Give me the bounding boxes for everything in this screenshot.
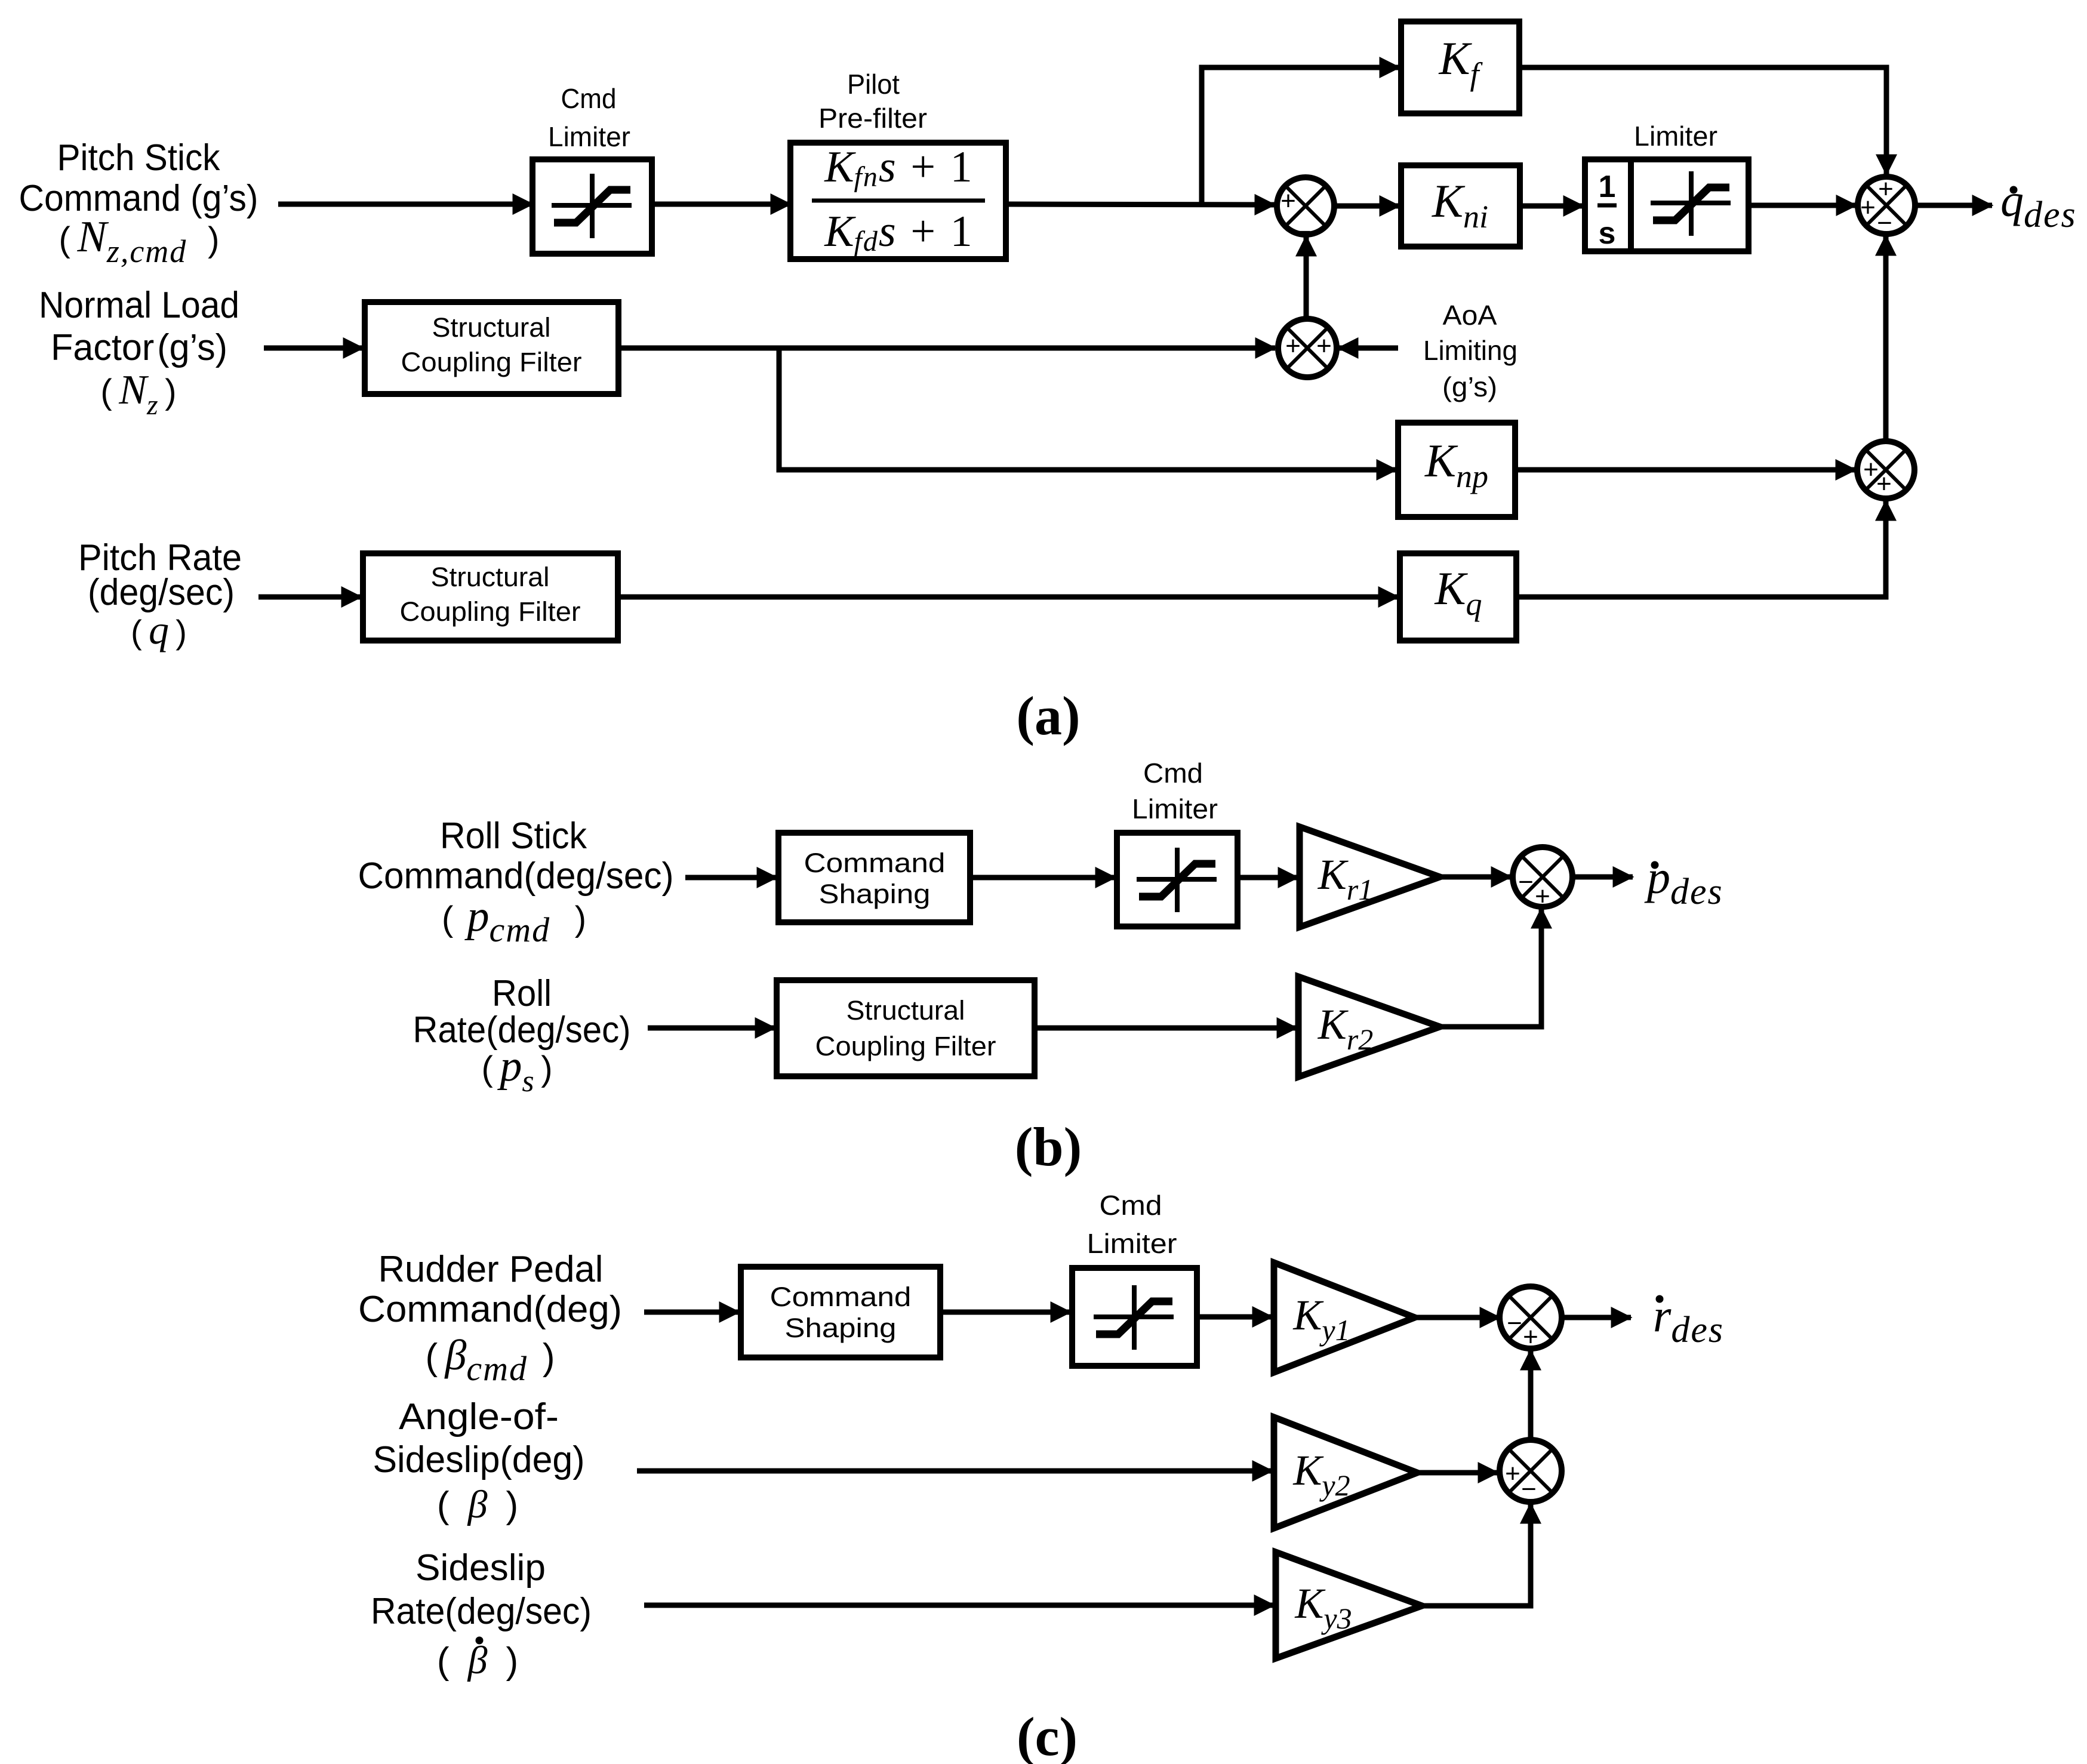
wire Ky1 to J4a xyxy=(1415,1315,1500,1320)
output arrow p_des xyxy=(1572,875,1633,880)
svg-text:Sideslip: Sideslip xyxy=(415,1547,546,1588)
wire J6 up to J5 xyxy=(1883,236,1889,441)
svg-text:+: + xyxy=(1860,193,1876,222)
svg-text:Shaping: Shaping xyxy=(819,879,931,909)
output arrow r_des xyxy=(1562,1315,1631,1320)
block Structural Coupling Filter (b) xyxy=(777,980,1035,1076)
summing junction J4b xyxy=(1500,1440,1562,1502)
wire input to Cmd Limiter xyxy=(278,202,532,207)
svg-text:+: + xyxy=(1505,1459,1520,1488)
svg-text:−: − xyxy=(1507,1309,1522,1338)
wire Kf output to J5 xyxy=(1519,67,1886,174)
svg-text:Limiting: Limiting xyxy=(1423,335,1517,366)
svg-text:Command(deg): Command(deg) xyxy=(358,1289,622,1330)
wire Cmd Limiter to Kr1 xyxy=(1238,875,1298,881)
summing junction J3 (p_des) xyxy=(1513,847,1572,907)
svg-text:Command: Command xyxy=(804,848,946,878)
svg-text:(a): (a) xyxy=(1016,685,1080,746)
gain triangle Ky3 xyxy=(1276,1552,1422,1658)
svg-text:Command (g’s): Command (g’s) xyxy=(19,178,258,219)
block Structural Coupling Filter (q) xyxy=(363,553,618,641)
wire Kr1 to J3 xyxy=(1440,875,1511,880)
wire Cmd Limiter to Ky1 xyxy=(1197,1314,1272,1320)
svg-text:(g’s): (g’s) xyxy=(1442,371,1497,402)
svg-text:( β ): ( β ) xyxy=(437,1483,518,1526)
svg-text:Limiter: Limiter xyxy=(1132,793,1218,824)
svg-text:Structural: Structural xyxy=(847,995,965,1026)
svg-text:+: + xyxy=(1876,469,1892,498)
output arrow q_des xyxy=(1915,203,1992,208)
svg-text:(b): (b) xyxy=(1015,1116,1082,1177)
wire input to Structural Coupling Filter (b) xyxy=(648,1026,775,1031)
block gain Kf xyxy=(1401,21,1519,113)
svg-text:Pre-filter: Pre-filter xyxy=(818,103,927,134)
svg-text:Angle-of-: Angle-of- xyxy=(399,1396,559,1437)
svg-text:+: + xyxy=(1316,331,1332,361)
svg-text:1: 1 xyxy=(1599,170,1616,204)
wire input to Structural Coupling Filter 2 xyxy=(258,595,361,600)
svg-text:Command(deg/sec): Command(deg/sec) xyxy=(358,855,674,897)
svg-text:Pilot: Pilot xyxy=(847,69,900,100)
svg-text:Coupling Filter: Coupling Filter xyxy=(401,347,582,377)
svg-text:Kfns + 1: Kfns + 1 xyxy=(824,143,972,193)
block gain Knp xyxy=(1398,423,1515,517)
wire beta input to Ky2 xyxy=(637,1469,1272,1474)
svg-text:Factor (g’s): Factor (g’s) xyxy=(51,327,227,368)
svg-text:Limiter: Limiter xyxy=(548,121,630,152)
wire SCF1 to AoA junction J2 xyxy=(618,346,1275,351)
svg-text:( q ): ( q ) xyxy=(131,607,187,652)
block Command Shaping (c) xyxy=(741,1267,940,1357)
summing junction J6 xyxy=(1857,441,1914,498)
wire Command Shaping to Cmd Limiter (b) xyxy=(970,875,1115,881)
wire Command Shaping to Cmd Limiter (c) xyxy=(940,1310,1070,1315)
wire Cmd Limiter to Pilot Pre-filter xyxy=(652,202,790,207)
wire input to Structural Coupling Filter 1 xyxy=(264,346,363,351)
block gain Kni xyxy=(1401,165,1520,247)
wire branch up to gain Kf xyxy=(1202,67,1399,204)
svg-text:Rate(deg/sec): Rate(deg/sec) xyxy=(371,1591,592,1632)
svg-text:+: + xyxy=(1535,882,1550,911)
svg-text:−: − xyxy=(1877,208,1892,238)
wire branch down to Knp xyxy=(779,348,1396,470)
svg-text:−: − xyxy=(1521,1474,1537,1504)
svg-text:Kfds + 1: Kfds + 1 xyxy=(824,207,972,257)
svg-text:Limiter: Limiter xyxy=(1634,121,1717,152)
block Command Shaping (b) xyxy=(778,833,970,922)
svg-text:Pitch Stick: Pitch Stick xyxy=(57,137,221,178)
svg-text:+: + xyxy=(1285,331,1301,361)
summing junction J2 (AoA) xyxy=(1278,319,1337,377)
summing junction J4a (r_des) xyxy=(1500,1286,1562,1349)
wire Pilot Pre-filter to summing junction J1 xyxy=(1006,204,1275,205)
wire Ky3 up to J4b xyxy=(1422,1504,1531,1606)
wire input to Command Shaping (b) xyxy=(685,875,777,881)
svg-text:Structural: Structural xyxy=(432,312,551,343)
svg-text:AoA: AoA xyxy=(1443,300,1497,331)
svg-text:Limiter: Limiter xyxy=(1087,1228,1177,1259)
wire Ky2 to J4b xyxy=(1417,1470,1498,1476)
svg-text:Coupling Filter: Coupling Filter xyxy=(815,1031,996,1061)
svg-text:Shaping: Shaping xyxy=(785,1313,897,1343)
svg-text:Normal Load: Normal Load xyxy=(39,285,239,326)
svg-text:Cmd: Cmd xyxy=(561,83,617,114)
gain triangle Ky1 xyxy=(1274,1263,1415,1372)
wire J2 up to J1 xyxy=(1304,236,1309,319)
svg-text:+: + xyxy=(1878,174,1894,204)
svg-text:Cmd: Cmd xyxy=(1143,758,1203,789)
gain triangle Kr1 xyxy=(1300,827,1440,927)
svg-text:−: − xyxy=(1518,867,1534,897)
svg-text:Coupling Filter: Coupling Filter xyxy=(400,596,581,627)
svg-text:Command: Command xyxy=(770,1282,912,1312)
svg-text:Structural: Structural xyxy=(431,562,550,592)
block Structural Coupling Filter (Nz) xyxy=(365,302,618,394)
wire J1 to Kni xyxy=(1334,204,1399,209)
svg-text:Roll Stick: Roll Stick xyxy=(440,815,587,857)
svg-text:( β ): ( β ) xyxy=(437,1639,518,1682)
wire SCF2 to Kq xyxy=(618,595,1398,600)
wire beta-dot input to Ky3 xyxy=(644,1603,1274,1608)
gain triangle Ky2 xyxy=(1274,1417,1417,1528)
wire integrator-limiter to J5 xyxy=(1749,203,1856,208)
wire Kq output up to J6 xyxy=(1516,501,1886,597)
wire Knp to J6 xyxy=(1515,467,1855,473)
summing junction J1 xyxy=(1277,177,1334,235)
svg-text:+: + xyxy=(1523,1322,1538,1352)
gain triangle Kr2 xyxy=(1298,977,1440,1077)
svg-text:(c): (c) xyxy=(1017,1706,1078,1764)
svg-text:Sideslip(deg): Sideslip(deg) xyxy=(373,1439,585,1480)
svg-text:Roll: Roll xyxy=(492,973,552,1014)
block gain Kq xyxy=(1400,553,1516,641)
wire J4b up to J4a xyxy=(1528,1350,1534,1440)
wire Kr2 up to J3 xyxy=(1440,909,1541,1027)
svg-text:s: s xyxy=(1599,216,1616,251)
wire SCF(b) to Kr2 xyxy=(1035,1026,1297,1031)
wire input to Command Shaping (c) xyxy=(644,1310,739,1315)
summing junction J5 (q_des) xyxy=(1858,177,1915,234)
svg-text:Rudder Pedal: Rudder Pedal xyxy=(378,1249,604,1290)
svg-text:Cmd: Cmd xyxy=(1100,1190,1162,1221)
wire Kni to integrator-limiter xyxy=(1520,204,1583,209)
wire AoA Limiting input into J2 xyxy=(1338,346,1398,351)
svg-text:+: + xyxy=(1280,186,1296,216)
